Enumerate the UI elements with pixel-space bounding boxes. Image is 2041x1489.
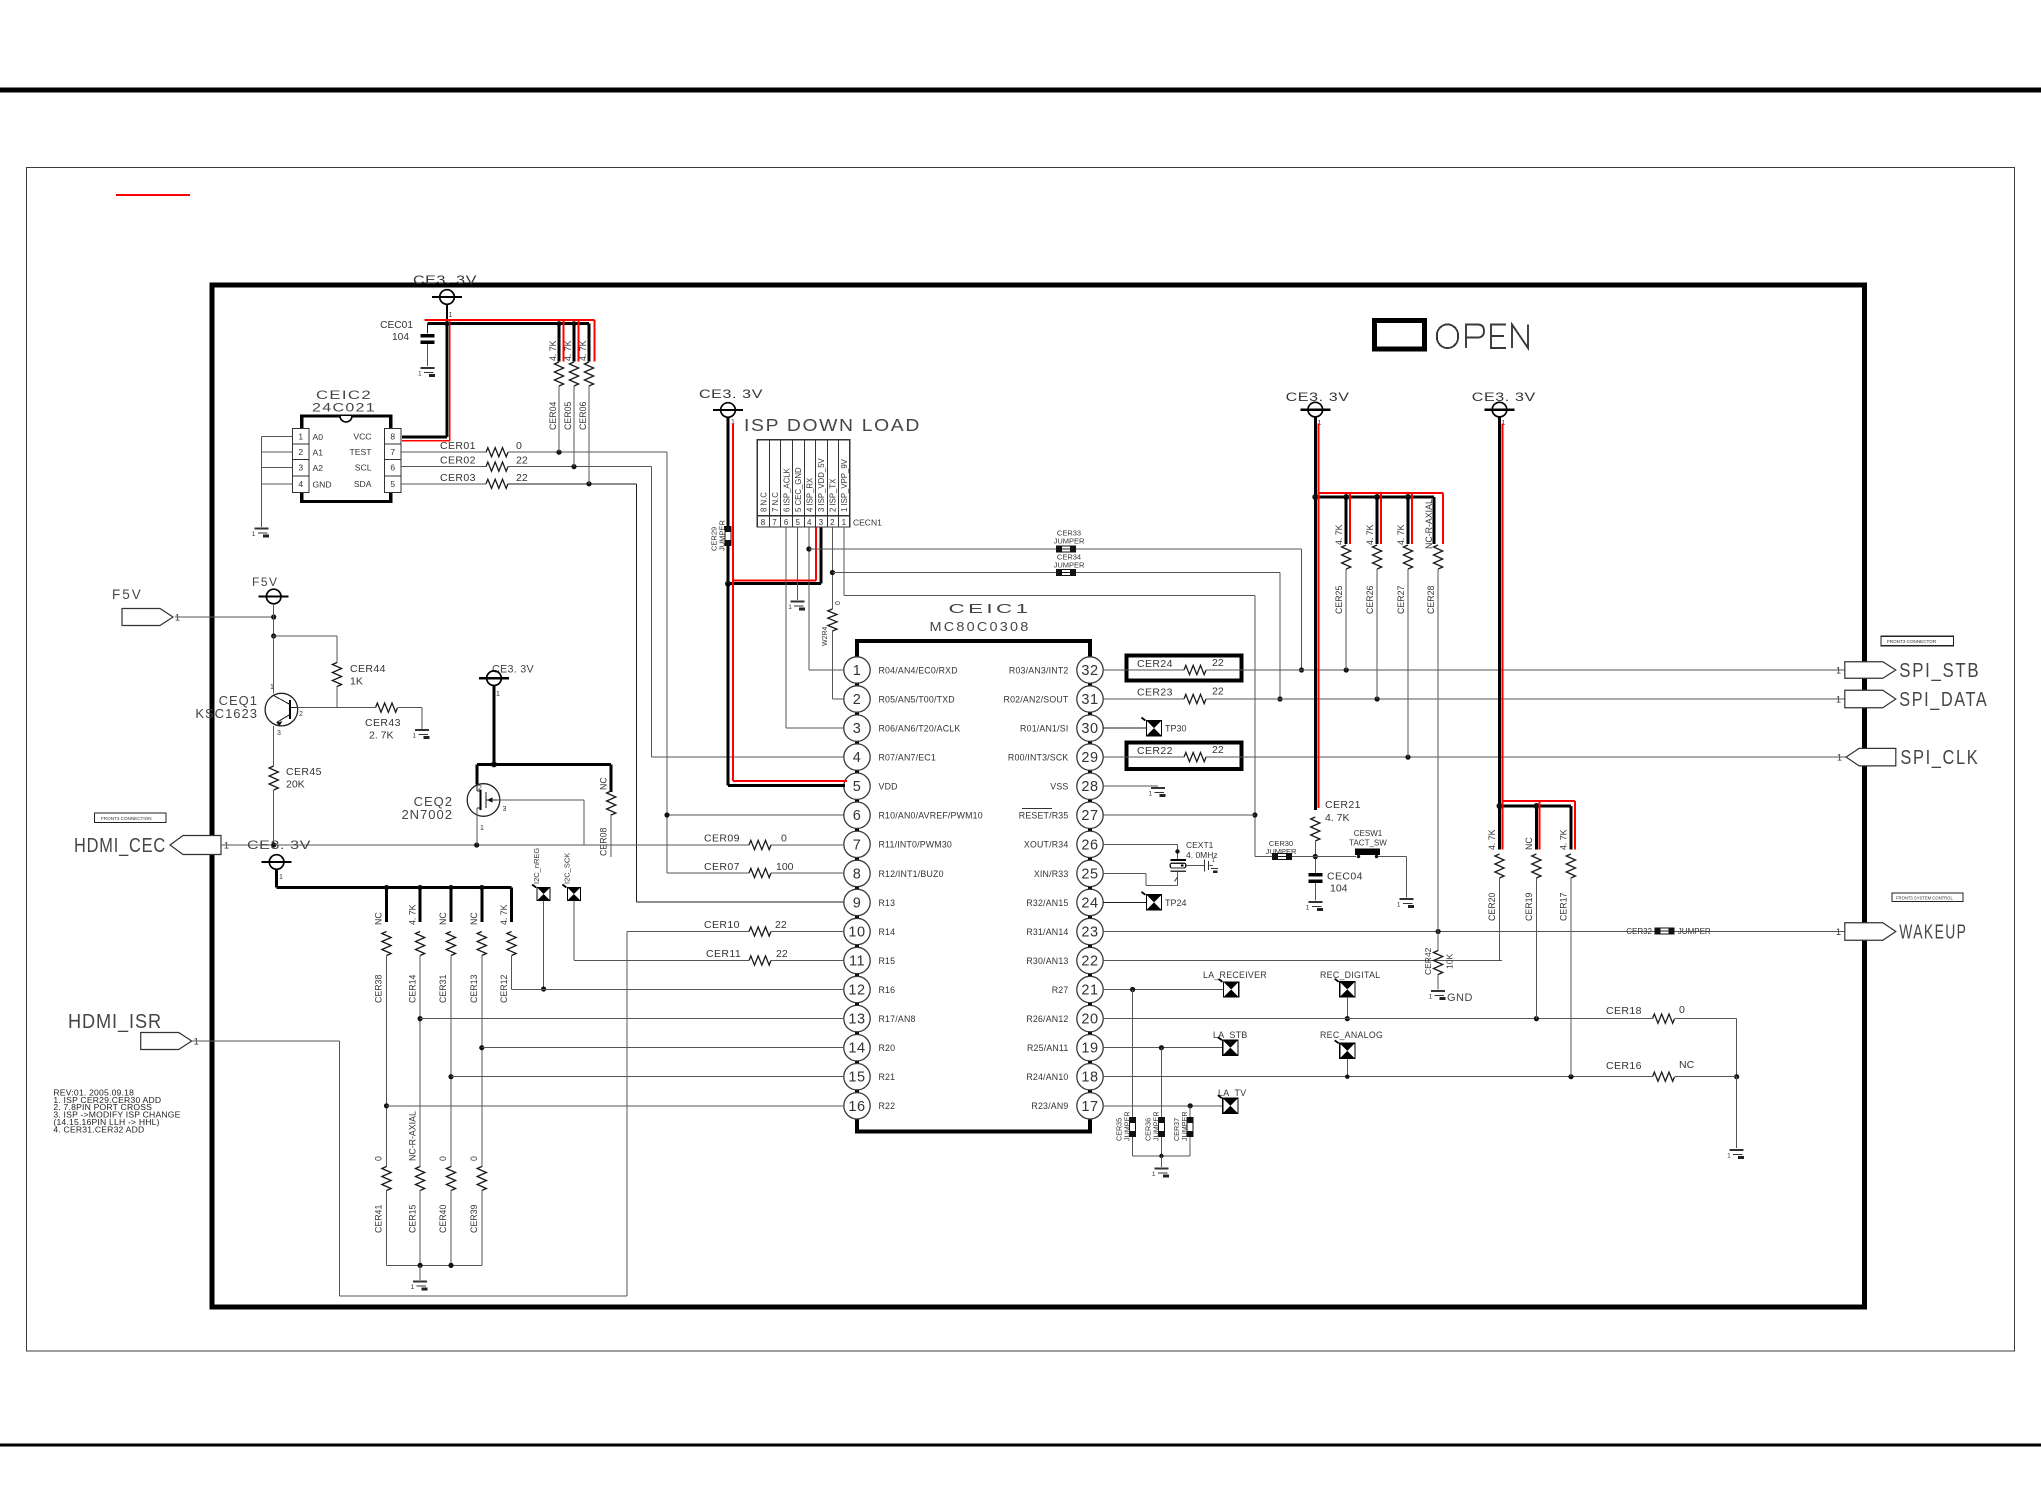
label ISP DOWN LOAD xyxy=(744,415,921,435)
svg-text:CER09: CER09 xyxy=(704,833,740,845)
resistor CER05 4.7K xyxy=(563,320,579,466)
svg-text:TEST: TEST xyxy=(350,447,373,457)
svg-text:2. 7K: 2. 7K xyxy=(369,730,394,742)
jumper CER29 xyxy=(710,520,732,551)
svg-text:I2C_nREG: I2C_nREG xyxy=(532,848,541,884)
resistor CER11 22 xyxy=(574,948,844,965)
svg-text:31: 31 xyxy=(1081,692,1098,708)
svg-text:1K: 1K xyxy=(350,676,363,688)
svg-text:13: 13 xyxy=(848,1012,865,1028)
wire CEIC2 address pins to ground xyxy=(261,436,292,527)
svg-text:CER28: CER28 xyxy=(1426,586,1436,614)
svg-text:CER27: CER27 xyxy=(1396,586,1406,614)
svg-text:3: 3 xyxy=(853,721,862,737)
svg-text:7: 7 xyxy=(853,837,862,853)
wire net WAKEUP (row23) xyxy=(1103,929,1845,934)
testpoint LA_STB xyxy=(1213,1030,1248,1055)
svg-text:1: 1 xyxy=(270,684,274,691)
testpoint I2C_nREG xyxy=(532,848,550,992)
svg-text:1: 1 xyxy=(480,825,484,832)
svg-text:R23/AN9: R23/AN9 xyxy=(1031,1101,1068,1111)
svg-text:1: 1 xyxy=(1397,902,1401,909)
wire CE3.3V pullup bus xyxy=(277,869,512,890)
svg-text:CER38: CER38 xyxy=(374,975,384,1003)
svg-text:TP24: TP24 xyxy=(1165,898,1187,908)
svg-text:R16: R16 xyxy=(879,985,896,995)
wire net CER02 (SCL) xyxy=(401,464,844,757)
svg-text:1: 1 xyxy=(496,691,500,698)
svg-text:1: 1 xyxy=(788,604,792,611)
svg-text:R25/AN11: R25/AN11 xyxy=(1027,1043,1069,1053)
wire CEC_GND xyxy=(797,527,799,600)
svg-text:5: 5 xyxy=(795,518,800,527)
svg-text:2N7002: 2N7002 xyxy=(401,807,453,822)
svg-text:JUMPER: JUMPER xyxy=(1151,1111,1160,1141)
svg-text:CER45: CER45 xyxy=(286,766,322,778)
svg-text:3: 3 xyxy=(298,463,303,473)
svg-text:22: 22 xyxy=(516,472,528,484)
svg-text:104: 104 xyxy=(1330,883,1348,895)
svg-text:WAKEUP: WAKEUP xyxy=(1899,922,1967,944)
svg-text:CER19: CER19 xyxy=(1524,893,1534,921)
svg-text:R27: R27 xyxy=(1052,985,1069,995)
jumper CER34 xyxy=(1054,553,1085,576)
connector SPI_DATA xyxy=(1836,689,1988,711)
svg-text:22: 22 xyxy=(776,948,788,960)
resistor CER20 4. 7K xyxy=(1487,829,1504,960)
svg-text:W2R4: W2R4 xyxy=(822,626,829,646)
wire net R24/AN10 (row18) xyxy=(1103,1074,1737,1079)
svg-text:4. 7K: 4. 7K xyxy=(1334,524,1344,545)
svg-text:JUMPER: JUMPER xyxy=(1123,1111,1132,1141)
svg-text:CE3. 3V: CE3. 3V xyxy=(1472,390,1536,404)
jumper CER33 xyxy=(1054,529,1085,553)
svg-text:8: 8 xyxy=(761,518,766,527)
svg-text:R05/AN5/T00/TXD: R05/AN5/T00/TXD xyxy=(879,694,955,704)
svg-text:22: 22 xyxy=(1212,657,1224,669)
svg-text:TACT_SW: TACT_SW xyxy=(1349,839,1387,848)
svg-text:8: 8 xyxy=(853,866,862,882)
svg-text:0: 0 xyxy=(469,1156,479,1161)
svg-text:21: 21 xyxy=(1081,983,1098,999)
svg-text:GND: GND xyxy=(313,480,332,490)
jumper CER37 xyxy=(1172,1106,1193,1156)
svg-text:CER02: CER02 xyxy=(440,455,476,467)
svg-text:FRONT3 CONNECTION: FRONT3 CONNECTION xyxy=(101,816,152,821)
svg-text:25: 25 xyxy=(1081,866,1098,882)
svg-text:1: 1 xyxy=(1306,905,1310,912)
svg-text:LA_TV: LA_TV xyxy=(1218,1088,1246,1098)
svg-text:2: 2 xyxy=(853,692,862,708)
svg-text:HDMI_CEC: HDMI_CEC xyxy=(74,835,166,857)
label FRONT3 CONNECTOR xyxy=(1881,636,1954,645)
svg-text:4. 7K: 4. 7K xyxy=(1365,524,1375,545)
wire ISP_VDD_5V (red) xyxy=(733,424,816,581)
svg-text:CEC04: CEC04 xyxy=(1327,871,1363,883)
svg-text:A2: A2 xyxy=(313,463,324,473)
ground (CEIC2) xyxy=(252,529,269,539)
svg-text:3 ISP_VDD_5V: 3 ISP_VDD_5V xyxy=(817,457,826,512)
junction CER14 row xyxy=(418,1016,423,1021)
svg-text:100: 100 xyxy=(776,861,794,873)
svg-text:R04/AN4/EC0/RXD: R04/AN4/EC0/RXD xyxy=(879,665,958,675)
svg-text:CER24: CER24 xyxy=(1137,658,1173,670)
connector CECN1 (ISP header) xyxy=(757,440,882,528)
ground (CER16) xyxy=(1727,1150,1744,1160)
highlight box CER24 xyxy=(1127,656,1242,681)
resistor CER42 10K xyxy=(1423,932,1455,990)
svg-text:12: 12 xyxy=(848,983,865,999)
svg-text:4. 7K: 4. 7K xyxy=(548,340,558,361)
ground (pull network) xyxy=(411,1282,428,1292)
svg-text:0: 0 xyxy=(438,1156,448,1161)
svg-text:4. 7K: 4. 7K xyxy=(1558,829,1568,850)
svg-text:VCC: VCC xyxy=(353,431,371,441)
svg-text:0: 0 xyxy=(1679,1004,1685,1016)
svg-text:CER14: CER14 xyxy=(407,975,417,1003)
svg-text:9: 9 xyxy=(853,895,862,911)
svg-text:JUMPER: JUMPER xyxy=(1678,927,1711,936)
resistor CER01 0 xyxy=(440,440,522,457)
ground (CER43) xyxy=(413,730,430,740)
legend OPEN box xyxy=(1374,321,1424,349)
svg-text:R31/AN14: R31/AN14 xyxy=(1026,927,1068,937)
junction CER13 row xyxy=(479,1045,484,1050)
svg-text:NC: NC xyxy=(599,777,609,790)
svg-text:JUMPER: JUMPER xyxy=(718,520,727,551)
wire net SPI_STB (row32) xyxy=(1103,667,1845,672)
svg-text:7 N.C: 7 N.C xyxy=(771,492,780,512)
svg-text:4. CER31.CER32 ADD: 4. CER31.CER32 ADD xyxy=(53,1124,144,1134)
switch CESW1 TACT_SW xyxy=(1349,829,1406,898)
svg-text:26: 26 xyxy=(1081,837,1098,853)
svg-text:CER07: CER07 xyxy=(704,861,740,873)
svg-text:29: 29 xyxy=(1081,750,1098,766)
resistor CER38 NC xyxy=(374,888,391,1168)
resistor CER14 4. 7K xyxy=(407,888,424,1168)
highlight box CER22 xyxy=(1127,743,1242,769)
wire ISP_RX to pin1 and CER33 xyxy=(806,527,1304,673)
svg-text:1: 1 xyxy=(1212,858,1215,864)
svg-text:8: 8 xyxy=(390,431,395,441)
svg-text:JUMPER: JUMPER xyxy=(1054,537,1085,546)
wire F5V xyxy=(175,614,276,619)
wire CE3.3V bank2 (red) xyxy=(1503,424,1575,850)
svg-text:CER10: CER10 xyxy=(704,919,740,931)
svg-text:1: 1 xyxy=(853,663,862,679)
svg-text:6 ISP_ACLK: 6 ISP_ACLK xyxy=(782,467,791,512)
svg-text:FRONT3 SYSTEM CONTROL: FRONT3 SYSTEM CONTROL xyxy=(1896,896,1953,901)
svg-text:2: 2 xyxy=(299,711,303,718)
svg-text:CER01: CER01 xyxy=(440,440,476,452)
jumper CER35 xyxy=(1115,990,1136,1157)
svg-text:4. 7K: 4. 7K xyxy=(1487,829,1497,850)
wire ISP_TX / CER34 row xyxy=(830,527,1283,702)
svg-text:24: 24 xyxy=(1081,895,1098,911)
svg-text:R30/AN13: R30/AN13 xyxy=(1026,956,1068,966)
wire net HDMI_ISR xyxy=(192,932,627,1297)
svg-text:CER23: CER23 xyxy=(1137,687,1173,699)
svg-text:FRONT3 CONNECTOR: FRONT3 CONNECTOR xyxy=(1887,639,1937,644)
wire net R17/AN8 (pin13) xyxy=(420,1018,844,1020)
svg-text:SPI_DATA: SPI_DATA xyxy=(1899,689,1988,711)
svg-text:CER15: CER15 xyxy=(407,1205,417,1233)
svg-text:6: 6 xyxy=(784,518,789,527)
svg-text:1: 1 xyxy=(1836,666,1841,676)
svg-text:18: 18 xyxy=(1081,1070,1098,1086)
legend OPEN text xyxy=(1437,325,1528,349)
resistor CER12 4. 7K xyxy=(499,888,516,1004)
wire net R26/AN12 (row20) xyxy=(1103,1016,1737,1021)
svg-text:R06/AN6/T20/ACLK: R06/AN6/T20/ACLK xyxy=(879,724,961,734)
revision notes xyxy=(53,1088,180,1135)
svg-text:20: 20 xyxy=(1081,1012,1098,1028)
resistor CER19 NC xyxy=(1524,837,1541,1019)
svg-text:CER12: CER12 xyxy=(499,975,509,1003)
wire net CER03 (SDA) xyxy=(401,481,844,902)
svg-text:4: 4 xyxy=(298,479,303,489)
svg-text:CER18: CER18 xyxy=(1606,1005,1642,1017)
svg-text:GND: GND xyxy=(1447,992,1473,1004)
svg-text:CER17: CER17 xyxy=(1558,893,1568,921)
resistor CER41 0 xyxy=(374,1156,391,1265)
resistor CER45 20K xyxy=(269,726,322,845)
svg-text:1: 1 xyxy=(1429,994,1433,1001)
connector SPI_STB xyxy=(1836,660,1980,682)
svg-text:R26/AN12: R26/AN12 xyxy=(1026,1014,1068,1024)
wire CEQ2 source xyxy=(476,808,478,845)
svg-text:16: 16 xyxy=(848,1099,865,1115)
wire VDD (pin5, black) xyxy=(728,584,845,786)
svg-text:A1: A1 xyxy=(313,448,324,458)
svg-text:NC: NC xyxy=(374,912,384,925)
resistor CER24 22 xyxy=(1137,657,1224,675)
wire net R20 (pin14) xyxy=(482,1047,844,1049)
svg-text:15: 15 xyxy=(848,1070,865,1086)
svg-text:CER16: CER16 xyxy=(1606,1060,1642,1072)
connector F5V xyxy=(112,587,180,626)
svg-text:6: 6 xyxy=(853,808,862,824)
ground (CEC_GND) xyxy=(788,602,805,612)
wire jumpers to ground xyxy=(1133,1154,1191,1167)
ground (CESW1) xyxy=(1397,899,1414,909)
testpoint LA_RECEIVER xyxy=(1203,970,1267,997)
svg-text:CER43: CER43 xyxy=(365,717,401,729)
resistor CER23 22 xyxy=(1137,686,1224,704)
svg-text:22: 22 xyxy=(1212,686,1224,698)
svg-text:1: 1 xyxy=(252,531,256,538)
svg-text:4. 7K: 4. 7K xyxy=(563,340,573,361)
ground (CEC01) xyxy=(418,368,435,378)
resistor CER25 4. 7K xyxy=(1334,493,1351,670)
svg-text:7: 7 xyxy=(772,518,777,527)
svg-text:32: 32 xyxy=(1081,663,1098,679)
svg-text:23: 23 xyxy=(1081,925,1098,941)
svg-text:NC: NC xyxy=(1524,837,1534,850)
power CE3.3V (CEIC2) xyxy=(413,273,477,324)
svg-text:CER22: CER22 xyxy=(1137,745,1173,757)
svg-text:HDMI_ISR: HDMI_ISR xyxy=(68,1011,162,1033)
svg-text:I2C_SCK: I2C_SCK xyxy=(562,853,571,884)
svg-text:28: 28 xyxy=(1081,779,1098,795)
svg-text:CE3. 3V: CE3. 3V xyxy=(492,664,534,676)
svg-text:R20: R20 xyxy=(879,1043,896,1053)
transistor CEQ2 2N7002 xyxy=(401,784,506,832)
svg-text:1: 1 xyxy=(1837,753,1842,763)
svg-text:CEC01: CEC01 xyxy=(380,320,413,331)
resistor CER40 0 xyxy=(438,1156,455,1265)
wire net R25/AN11 (row19) xyxy=(1103,1045,1222,1050)
svg-text:CER05: CER05 xyxy=(563,402,573,430)
svg-text:4 ISP_RX: 4 ISP_RX xyxy=(806,477,815,512)
svg-text:14: 14 xyxy=(848,1041,865,1057)
svg-text:R01/AN1/SI: R01/AN1/SI xyxy=(1020,724,1068,734)
power CE3.3V (CER20 bank) xyxy=(1472,390,1536,427)
svg-text:CER06: CER06 xyxy=(578,402,588,430)
resistor CER44 1K xyxy=(332,636,385,708)
resistor CER43 2.7K xyxy=(298,703,422,742)
svg-text:CE3. 3V: CE3. 3V xyxy=(413,273,477,287)
wire RESET (pin27) xyxy=(1103,814,1255,816)
svg-text:R14: R14 xyxy=(879,927,896,937)
svg-text:2 ISP_TX: 2 ISP_TX xyxy=(829,478,838,512)
label FRONT3 SYSTEM CONTROL xyxy=(1892,893,1963,902)
jumper CER32 xyxy=(1626,927,1711,936)
svg-text:A0: A0 xyxy=(313,432,324,442)
svg-text:4. 7K: 4. 7K xyxy=(499,904,509,925)
resistor CER08 NC xyxy=(599,777,616,857)
resistor CER39 0 xyxy=(469,1156,486,1265)
svg-text:7: 7 xyxy=(390,447,395,457)
connector HDMI_ISR xyxy=(68,1011,199,1050)
svg-text:NC: NC xyxy=(469,912,479,925)
svg-text:4. 7K: 4. 7K xyxy=(578,340,588,361)
svg-text:F5V: F5V xyxy=(252,575,279,589)
resistor CER07 100 xyxy=(667,861,844,878)
wire ISP_VPP_9V to RESET xyxy=(844,527,1258,856)
svg-text:JUMPER: JUMPER xyxy=(1054,561,1085,570)
svg-text:KSC1623: KSC1623 xyxy=(195,706,258,721)
svg-text:104: 104 xyxy=(392,332,409,343)
svg-text:11: 11 xyxy=(849,954,865,970)
svg-text:NC-R-AXIAL: NC-R-AXIAL xyxy=(1424,499,1434,549)
svg-text:NC: NC xyxy=(438,912,448,925)
resistor CER18 0 xyxy=(1606,1004,1739,1079)
svg-text:R32/AN15: R32/AN15 xyxy=(1026,898,1068,908)
svg-text:5 CEC_GND: 5 CEC_GND xyxy=(794,467,803,512)
power F5V xyxy=(252,575,289,636)
wire net HDMI_CEC xyxy=(221,842,844,847)
ground (jumpers) xyxy=(1152,1169,1169,1179)
svg-text:MC80C0308: MC80C0308 xyxy=(930,619,1031,634)
svg-text:0: 0 xyxy=(516,440,522,452)
testpoint TP30 xyxy=(1103,718,1187,736)
wire CE3.3V bank1 (black) xyxy=(1312,417,1434,810)
jumper CER30 xyxy=(1255,839,1356,860)
svg-text:NC: NC xyxy=(1679,1059,1695,1071)
svg-text:CECN1: CECN1 xyxy=(853,518,882,528)
svg-text:R12/INT1/BUZ0: R12/INT1/BUZ0 xyxy=(879,869,944,879)
testpoint LA_TV xyxy=(1218,1088,1247,1113)
svg-text:3: 3 xyxy=(277,730,281,737)
svg-text:1: 1 xyxy=(1149,791,1153,798)
resistor CER26 4. 7K xyxy=(1365,493,1382,699)
svg-text:1: 1 xyxy=(1836,927,1841,937)
svg-text:CER20: CER20 xyxy=(1487,893,1497,921)
wire net SPI_DATA (row31) xyxy=(1103,696,1845,701)
svg-text:0: 0 xyxy=(781,833,787,845)
wire ISP_VDD_5V (black) xyxy=(725,417,821,586)
svg-text:CER32: CER32 xyxy=(1626,927,1652,936)
svg-text:1: 1 xyxy=(411,1284,415,1291)
svg-text:CEXT1: CEXT1 xyxy=(1186,840,1214,850)
svg-text:1: 1 xyxy=(413,733,417,740)
ground (VSS) xyxy=(1149,788,1166,798)
svg-text:CER31: CER31 xyxy=(438,975,448,1003)
svg-text:XOUT/R34: XOUT/R34 xyxy=(1024,840,1069,850)
svg-text:R21: R21 xyxy=(879,1072,896,1082)
svg-text:SDA: SDA xyxy=(354,479,372,489)
svg-text:R22: R22 xyxy=(879,1101,896,1111)
IC CEIC2 24C021 xyxy=(293,388,401,502)
svg-text:R17/AN8: R17/AN8 xyxy=(879,1014,916,1024)
testpoint REC_DIGITAL xyxy=(1320,970,1380,1021)
svg-text:CER04: CER04 xyxy=(548,402,558,430)
resistor CER27 4. 7K xyxy=(1396,493,1413,757)
resistor CER03 22 xyxy=(440,472,528,489)
svg-text:3: 3 xyxy=(819,518,824,527)
svg-text:R11/INT0/PWM30: R11/INT0/PWM30 xyxy=(879,840,953,850)
inner schematic frame xyxy=(212,285,1865,1307)
resistor CER02 22 xyxy=(440,455,528,472)
svg-text:22: 22 xyxy=(1212,744,1224,756)
svg-text:R24/AN10: R24/AN10 xyxy=(1026,1072,1068,1082)
svg-text:CER42: CER42 xyxy=(1423,947,1433,975)
svg-text:SCL: SCL xyxy=(355,463,372,473)
svg-text:CER08: CER08 xyxy=(599,828,609,856)
svg-text:CER26: CER26 xyxy=(1365,586,1375,614)
svg-text:0: 0 xyxy=(835,601,842,605)
wire CE3.3V bank1 (red) xyxy=(1318,424,1443,808)
svg-text:0: 0 xyxy=(374,1156,384,1161)
wire CE3.3V to CEQ2 drain / CER08 xyxy=(477,686,611,793)
svg-text:10: 10 xyxy=(848,925,865,941)
wire net R27 (row21) xyxy=(1103,987,1224,992)
svg-text:CER25: CER25 xyxy=(1334,586,1344,614)
wire CE3.3V bank2 (black) xyxy=(1497,417,1571,849)
resistor CER06 4.7K xyxy=(578,320,595,484)
svg-text:3: 3 xyxy=(503,806,507,813)
svg-text:VSS: VSS xyxy=(1050,782,1068,792)
wire VCC bus (black) xyxy=(428,321,590,326)
ground GND (CER42) xyxy=(1429,991,1473,1004)
wire F5V to CER44/CEQ1 xyxy=(271,633,337,693)
svg-text:4. 7K: 4. 7K xyxy=(407,904,417,925)
wire net R16 (pin12) xyxy=(512,989,844,991)
svg-text:5: 5 xyxy=(390,479,395,489)
bottom border line xyxy=(0,1444,2041,1447)
capacitor CEC01 104 xyxy=(380,320,434,366)
svg-text:20K: 20K xyxy=(286,779,305,791)
connector HDMI_CEC xyxy=(74,835,229,857)
connector WAKEUP xyxy=(1836,922,1967,944)
svg-text:22: 22 xyxy=(775,919,787,931)
svg-text:2: 2 xyxy=(298,447,303,457)
svg-text:5: 5 xyxy=(853,779,862,795)
wire VDD (pin5, red) xyxy=(733,580,847,781)
svg-text:17: 17 xyxy=(1081,1099,1098,1115)
svg-text:CER40: CER40 xyxy=(438,1205,448,1233)
